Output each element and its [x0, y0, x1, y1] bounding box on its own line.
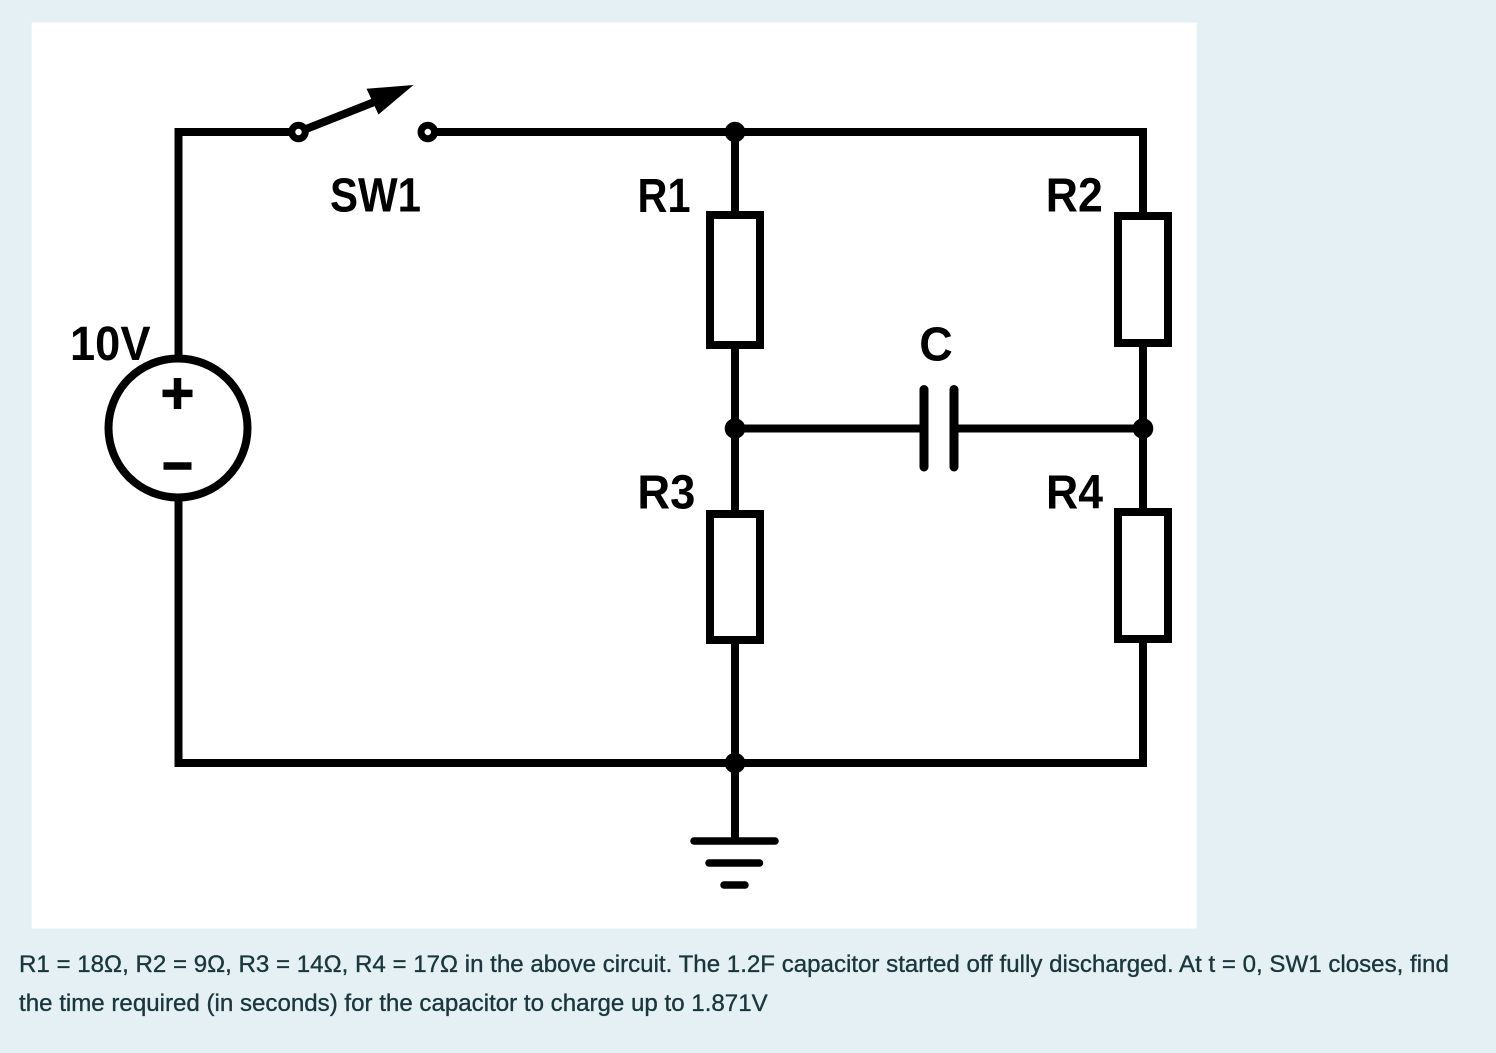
wire top rail (switch to top-right corner, down to R2)	[437, 132, 1143, 213]
wire R3 stub top	[731, 429, 739, 519]
wire bottom rail (source bottom, bottom-left corner, to R4 bottom)	[179, 495, 1144, 763]
ground	[694, 841, 775, 885]
junction dot bottom (ground node)	[725, 753, 746, 774]
wire R1 stub top	[731, 132, 739, 215]
resistor R3	[710, 514, 760, 640]
svg-text:R3: R3	[637, 467, 695, 520]
voltage source V1 10V	[109, 359, 248, 498]
capacitor C	[924, 390, 954, 468]
svg-text:SW1: SW1	[330, 170, 421, 223]
junction dot middle-right (node B)	[1133, 418, 1154, 439]
junction dot middle-left (node A)	[725, 418, 746, 439]
svg-text:R2: R2	[1046, 170, 1103, 223]
junction dot top (R1/top rail)	[725, 122, 746, 143]
wire R1 stub bottom	[731, 345, 739, 429]
resistor R4	[1118, 512, 1168, 639]
svg-text:C: C	[919, 319, 953, 372]
white canvas panel	[32, 23, 1197, 929]
svg-text:10V: 10V	[70, 318, 151, 371]
wire middle left (node to capacitor)	[735, 425, 920, 433]
wire R4 stub top	[1139, 429, 1147, 513]
caption text	[19, 945, 1479, 1023]
wire R3 stub bottom	[731, 640, 739, 763]
wire middle right (capacitor to right node)	[958, 425, 1143, 433]
svg-text:R4: R4	[1046, 467, 1103, 520]
resistor R2	[1118, 216, 1168, 343]
switch SW1	[292, 85, 435, 139]
wire ground stub	[731, 763, 739, 841]
wire top-left (source top to switch)	[179, 132, 291, 360]
resistor R1	[710, 215, 760, 345]
svg-text:R1: R1	[638, 170, 691, 223]
wire R2 stub bottom	[1139, 343, 1147, 429]
